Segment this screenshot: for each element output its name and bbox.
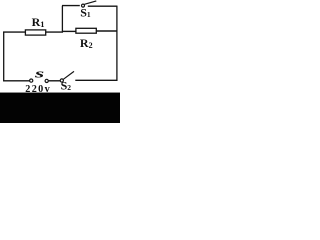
wire: between source and S2 [49, 80, 61, 82]
switch S1 lever [84, 1, 96, 4]
wire: R2 to right vertical [96, 30, 117, 32]
wire: R1 to junction [46, 31, 63, 33]
wire: top left segment to R1 [3, 31, 25, 33]
svg-text:220v: 220v [25, 84, 51, 95]
wire: right vertical [116, 6, 118, 81]
AC mains source: left terminal [30, 79, 33, 82]
wire: S1 branch top right [88, 5, 118, 7]
node: junction of S1 branch and R2 branch [61, 6, 63, 33]
resistor R2 body [76, 28, 96, 33]
wire: left vertical [3, 32, 5, 82]
switch S2 lever [63, 71, 74, 79]
switch S2 terminal [60, 79, 63, 82]
wire: S1 branch top left [62, 5, 80, 7]
wire: bottom right segment [75, 79, 117, 81]
AC mains source: right terminal [45, 79, 48, 82]
resistor R1 body [25, 30, 45, 35]
switch S1 terminal [82, 4, 85, 7]
svg-text:s: s [34, 67, 44, 81]
wire: bottom left segment [3, 80, 29, 82]
wire: junction to R2 [62, 30, 76, 32]
